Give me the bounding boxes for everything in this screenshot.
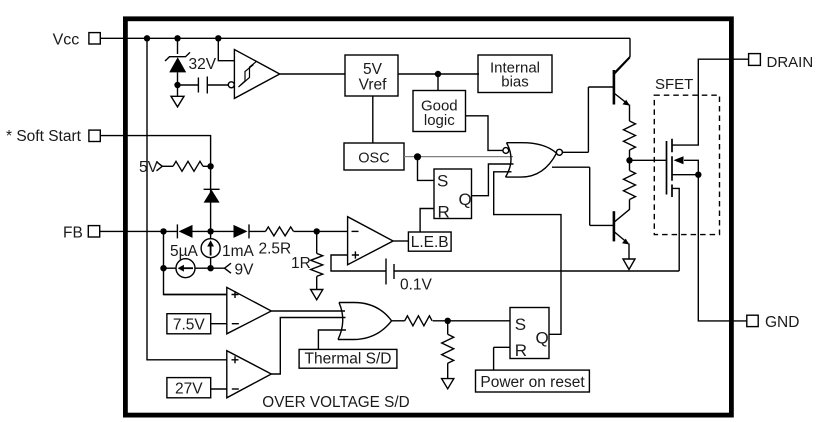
svg-text:5µA: 5µA xyxy=(170,243,199,260)
svg-text:Vcc: Vcc xyxy=(53,31,80,48)
svg-text:OVER VOLTAGE S/D: OVER VOLTAGE S/D xyxy=(262,394,409,411)
svg-text:Power on reset: Power on reset xyxy=(480,374,585,391)
svg-text:* Soft Start: * Soft Start xyxy=(6,128,82,145)
svg-text:S: S xyxy=(515,315,526,334)
svg-text:27V: 27V xyxy=(175,381,203,398)
svg-text:9V: 9V xyxy=(235,262,255,279)
svg-text:L.E.B: L.E.B xyxy=(411,234,449,251)
svg-text:Q: Q xyxy=(459,190,472,209)
svg-text:1R: 1R xyxy=(291,255,311,272)
svg-text:SFET: SFET xyxy=(655,76,693,93)
svg-text:logic: logic xyxy=(424,112,455,129)
svg-text:Thermal S/D: Thermal S/D xyxy=(305,351,392,368)
svg-text:2.5R: 2.5R xyxy=(259,241,292,258)
svg-text:Vref: Vref xyxy=(359,77,388,94)
svg-text:FB: FB xyxy=(63,225,83,242)
svg-text:bias: bias xyxy=(501,74,529,91)
svg-text:7.5V: 7.5V xyxy=(173,317,206,334)
svg-text:DRAIN: DRAIN xyxy=(767,54,814,71)
svg-text:Q: Q xyxy=(536,329,549,348)
svg-text:32V: 32V xyxy=(189,56,217,73)
svg-text:OSC: OSC xyxy=(358,151,389,167)
svg-text:0.1V: 0.1V xyxy=(400,277,433,294)
svg-text:R: R xyxy=(438,202,450,221)
svg-text:S: S xyxy=(437,172,448,191)
svg-text:5V: 5V xyxy=(363,61,383,78)
svg-text:5V: 5V xyxy=(139,159,159,176)
svg-text:1mA: 1mA xyxy=(222,243,255,260)
svg-text:R: R xyxy=(515,341,527,360)
svg-text:GND: GND xyxy=(765,314,799,331)
